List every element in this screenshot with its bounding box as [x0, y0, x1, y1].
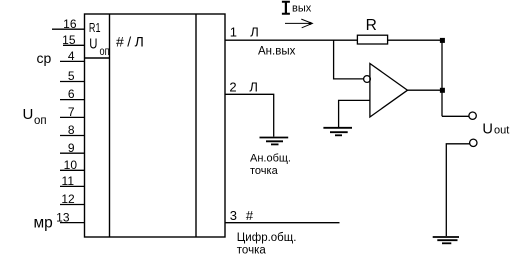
- svg-text:U: U: [23, 106, 34, 123]
- svg-text:out: out: [494, 125, 509, 137]
- op-amp U2: [364, 64, 408, 118]
- terminal circle (Uout -): [470, 139, 477, 146]
- pin 12 wire: [60, 204, 85, 206]
- junction dot (op-amp output): [440, 88, 445, 93]
- pin 13 wire: [60, 222, 85, 224]
- svg-text:6: 6: [68, 87, 75, 101]
- wire: op-amp output: [408, 89, 443, 91]
- net label Cifr.obsh. tochka: [237, 232, 297, 257]
- pin 10 wire: [60, 169, 85, 171]
- net label Uop (reference input): [23, 106, 47, 127]
- svg-text:1: 1: [230, 24, 237, 39]
- svg-text:U: U: [89, 36, 97, 53]
- ground (output return): [433, 237, 459, 243]
- svg-text:ср: ср: [37, 50, 52, 66]
- pin 8 wire: [60, 135, 85, 137]
- ground (op-amp + input): [323, 128, 352, 136]
- junction dot (R to output): [440, 38, 445, 43]
- svg-text:Л: Л: [250, 24, 259, 39]
- svg-text:R: R: [366, 17, 377, 34]
- wire: to upper terminal: [442, 115, 469, 117]
- svg-text:Ан.вых: Ан.вых: [258, 45, 296, 57]
- svg-text:3: 3: [230, 208, 237, 223]
- svg-text:мр: мр: [34, 215, 53, 232]
- wire: lower terminal to ground: [446, 144, 470, 236]
- svg-text:9: 9: [68, 141, 75, 155]
- ground (analog common): [260, 138, 289, 145]
- pin 16 wire: [52, 28, 85, 30]
- svg-text:13: 13: [56, 210, 70, 224]
- pin 6 wire: [60, 99, 85, 101]
- wire: R right side down to output node: [388, 39, 442, 41]
- pin 11 wire: [60, 185, 85, 187]
- svg-text:U: U: [482, 121, 493, 137]
- svg-text:Цифр.общ.: Цифр.общ.: [237, 232, 297, 244]
- pin 9 wire: [60, 152, 85, 154]
- wire: feedback tap down to inverting input: [334, 40, 364, 79]
- svg-text:16: 16: [63, 17, 77, 31]
- svg-text:10: 10: [64, 158, 78, 172]
- svg-text:4: 4: [68, 49, 75, 63]
- svg-text:оп: оп: [34, 115, 47, 127]
- svg-text:8: 8: [68, 123, 75, 137]
- svg-text:11: 11: [62, 174, 75, 188]
- resistor network box R1 (inner cell bottom): [85, 57, 110, 59]
- svg-text:15: 15: [62, 33, 76, 47]
- pin 2 wire: [225, 94, 274, 136]
- resistor R: [357, 35, 387, 44]
- pin 5 wire: [60, 81, 85, 83]
- svg-text:12: 12: [61, 192, 75, 206]
- svg-text:вых: вых: [292, 2, 312, 14]
- pin 15 wire: [63, 44, 85, 46]
- terminal circle (Uout +): [469, 112, 476, 119]
- svg-text:#/Л: #/Л: [116, 34, 147, 50]
- label Uop (inner): [89, 36, 109, 58]
- wire: output node vertical: [441, 40, 443, 116]
- svg-text:5: 5: [68, 69, 75, 83]
- svg-text:7: 7: [68, 105, 75, 119]
- svg-text:R1: R1: [89, 20, 101, 35]
- pin 4 wire: [60, 60, 85, 62]
- current label I vyh: [282, 1, 312, 15]
- svg-text:точка: точка: [237, 245, 267, 257]
- svg-text:Л: Л: [249, 79, 258, 94]
- pin 3 wire: [225, 222, 340, 224]
- label Uout: [482, 121, 509, 137]
- svg-text:#: #: [246, 208, 254, 223]
- pin 1 output wire (to resistor R): [225, 39, 357, 41]
- net label An.obsh. tochka: [250, 153, 291, 178]
- svg-text:2: 2: [229, 79, 236, 94]
- svg-text:оп: оп: [100, 44, 110, 58]
- DAC IC U1 body: [85, 14, 226, 237]
- current direction arrow: [285, 19, 312, 28]
- svg-text:Ан.общ.: Ан.общ.: [250, 153, 291, 165]
- wire: non-inverting input to ground: [339, 100, 370, 127]
- svg-text:точка: точка: [250, 165, 279, 177]
- pin 7 wire: [60, 116, 85, 118]
